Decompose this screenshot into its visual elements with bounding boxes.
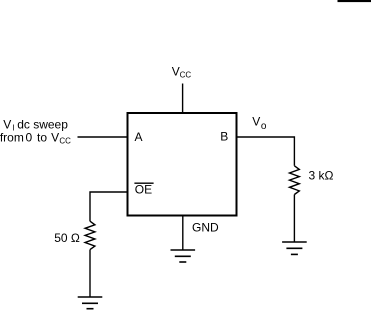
svg-text:B: B [220,130,228,144]
svg-text:CC: CC [180,71,192,80]
svg-text:CC: CC [59,136,71,145]
input source label: VI dc sweep from 0 to VCC [0,117,71,145]
wire IC GND pin to ground [182,216,184,251]
IC U1 (device under test) box [128,113,237,216]
wire pin OE to 50 Ohm resistor [90,192,128,221]
wire pin B to output node VO [237,137,295,166]
ground symbol (OE pulldown) [78,297,103,309]
svg-text:OE: OE [135,183,152,197]
svg-text:50 Ω: 50 Ω [54,231,80,245]
page header rule [338,0,371,2]
svg-text:0: 0 [26,130,33,144]
svg-text:GND: GND [192,221,219,235]
pin OE overline [134,182,153,184]
svg-text:3 kΩ: 3 kΩ [309,168,334,182]
svg-text:o: o [261,121,267,132]
wire 50 Ohm resistor to ground [89,250,91,297]
wire VCC supply to IC top [182,84,184,114]
node VO label [252,114,267,132]
resistor 50 Ohm (zigzag) [85,221,95,249]
ground symbol (output load) [282,242,307,254]
svg-text:V: V [3,117,11,131]
resistor RL 3 kOhm (zigzag) [290,166,300,195]
svg-text:V: V [51,130,59,144]
wire resistor RL to ground [293,195,295,243]
svg-text:to: to [37,130,47,144]
svg-text:V: V [252,114,260,128]
svg-text:dc sweep: dc sweep [17,117,68,131]
ground symbol (IC GND) [171,250,196,262]
node VCC label [172,64,192,79]
wire input source to pin A [78,136,128,138]
svg-text:from: from [0,130,24,144]
svg-text:A: A [135,130,143,144]
